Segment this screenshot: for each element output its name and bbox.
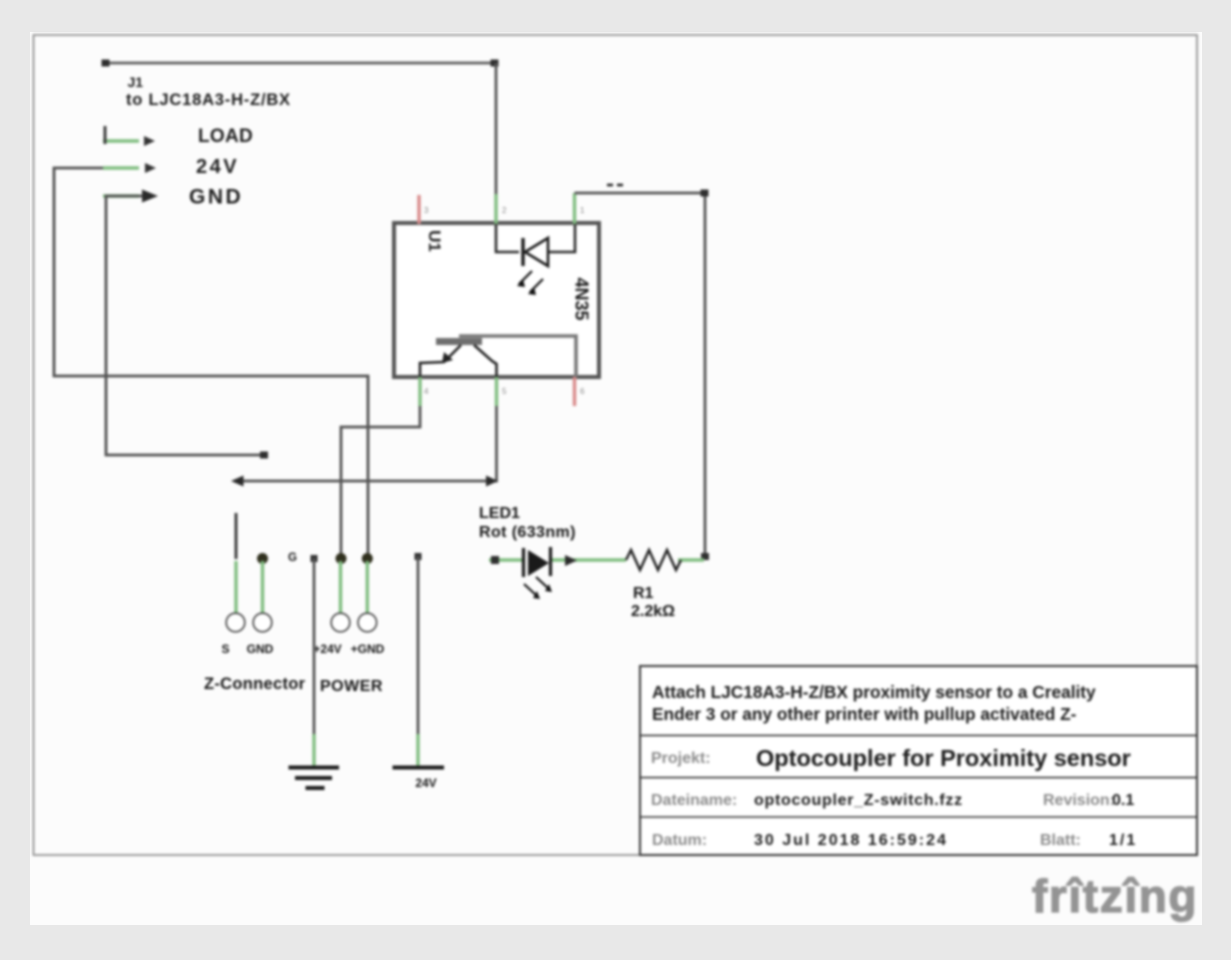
svg-text:R1: R1 bbox=[633, 585, 654, 602]
phototransistor base bar bbox=[436, 338, 482, 345]
collector leg bbox=[474, 345, 497, 377]
wire from opto emitter to POWER connector bbox=[341, 406, 420, 559]
svg-text:4N35: 4N35 bbox=[572, 277, 592, 320]
svg-text:+GND: +GND bbox=[351, 642, 385, 656]
internal LED triangle bbox=[525, 238, 548, 266]
wire stub on J1 LOAD pin bbox=[104, 126, 107, 144]
wire top bus bbox=[102, 60, 499, 67]
zigzag body bbox=[626, 550, 681, 570]
svg-text:POWER: POWER bbox=[320, 678, 383, 695]
connector J1 pin 3 GND bbox=[103, 186, 243, 209]
svg-text:LED1: LED1 bbox=[479, 505, 520, 522]
left lead bbox=[586, 558, 626, 561]
socket circle pin S bbox=[226, 613, 245, 632]
wire to 24V supply symbol bbox=[415, 553, 422, 744]
junction on Z connector pin 2 bbox=[257, 553, 268, 564]
pin numbers bbox=[424, 206, 585, 396]
svg-text:J1: J1 bbox=[128, 74, 144, 90]
pin 1 top-right (green) bbox=[573, 193, 576, 224]
pin 4 bottom-left (green) bbox=[418, 377, 421, 406]
base wire to pin 6 bbox=[459, 336, 576, 377]
pin S lead bbox=[234, 561, 237, 613]
net label dashes bbox=[607, 184, 623, 187]
svg-text:LOAD: LOAD bbox=[198, 126, 253, 147]
svg-text:U1: U1 bbox=[425, 230, 444, 252]
svg-text:1/1: 1/1 bbox=[1109, 832, 1137, 849]
svg-text:Blatt:: Blatt: bbox=[1040, 832, 1081, 849]
svg-text:Dateiname:: Dateiname: bbox=[651, 792, 737, 809]
pin 2 top-middle (green) bbox=[494, 194, 497, 224]
svg-text:3: 3 bbox=[424, 206, 429, 215]
wire GND net from J1 bbox=[106, 190, 268, 459]
emitter leg with arrow bbox=[420, 345, 461, 377]
wire stub above Z connector pin 1 bbox=[235, 513, 238, 559]
svg-text:G: G bbox=[288, 552, 297, 564]
internal LED cathode bar bbox=[521, 238, 524, 266]
socket circle pin +24V bbox=[331, 613, 350, 632]
svg-text:Rot (633nm): Rot (633nm) bbox=[479, 524, 576, 541]
ground bbox=[289, 734, 340, 788]
wire end cap bbox=[491, 556, 499, 564]
LED LED1 bbox=[479, 505, 586, 599]
svg-text:optocoupler_Z-switch.fzz: optocoupler_Z-switch.fzz bbox=[754, 792, 963, 809]
junction on POWER pin 1 bbox=[336, 553, 347, 564]
svg-text:6: 6 bbox=[580, 387, 585, 396]
svg-text:Projekt:: Projekt: bbox=[651, 750, 711, 767]
svg-text:2: 2 bbox=[502, 206, 507, 215]
diode symbol bbox=[522, 548, 525, 577]
junction on POWER pin 2 bbox=[362, 553, 373, 564]
svg-text:Ender 3 or any other printer w: Ender 3 or any other printer with pullup… bbox=[652, 704, 1077, 724]
socket circle pin GND bbox=[253, 613, 272, 632]
connector J1 pin 1 LOAD bbox=[103, 126, 253, 147]
svg-text:5: 5 bbox=[502, 387, 507, 396]
pin 3 top-left (unconnected, red) bbox=[417, 195, 420, 224]
emission arrows bbox=[524, 577, 549, 596]
right lead bbox=[678, 558, 704, 561]
wire end arrow bbox=[565, 555, 577, 566]
svg-text:to LJC18A3-H-Z/BX: to LJC18A3-H-Z/BX bbox=[126, 91, 291, 109]
pin 6 bottom-right (unconnected, red) bbox=[573, 377, 576, 406]
connector J1 label bbox=[126, 74, 291, 109]
pin +24V lead bbox=[339, 561, 342, 613]
svg-text:S: S bbox=[221, 642, 229, 656]
svg-text:2.2kΩ: 2.2kΩ bbox=[631, 603, 675, 620]
wire from top bus to optocoupler pin 2 bbox=[495, 63, 498, 196]
wire 24V net from J1 to POWER connector bbox=[54, 168, 368, 559]
anode lead bbox=[489, 558, 522, 561]
svg-text:GND: GND bbox=[189, 186, 243, 209]
resistor R1 bbox=[586, 550, 704, 620]
svg-text:0.1: 0.1 bbox=[1112, 792, 1134, 809]
power supply 24V bbox=[393, 734, 445, 790]
body bbox=[394, 223, 599, 377]
optocoupler U1 4N35 bbox=[394, 193, 599, 406]
pin GND lead bbox=[261, 561, 264, 613]
svg-text:+24V: +24V bbox=[313, 642, 341, 656]
svg-text:Optocoupler for Proximity sens: Optocoupler for Proximity sensor bbox=[756, 745, 1131, 771]
svg-text:30 Jul 2018 16:59:24: 30 Jul 2018 16:59:24 bbox=[754, 832, 948, 849]
svg-text:GND: GND bbox=[247, 642, 274, 656]
svg-text:Datum:: Datum: bbox=[652, 832, 707, 849]
svg-text:1: 1 bbox=[580, 206, 585, 215]
title block bbox=[640, 666, 1197, 855]
internal LED emission arrows bbox=[519, 271, 543, 292]
svg-text:Z-Connector: Z-Connector bbox=[204, 675, 306, 693]
svg-text:frîtzîng: frîtzîng bbox=[1032, 870, 1198, 922]
wire from opto collector to Z connector bbox=[231, 406, 498, 487]
wire to ground symbol bbox=[311, 555, 318, 744]
svg-text:24V: 24V bbox=[415, 776, 436, 790]
svg-text:4: 4 bbox=[424, 387, 429, 396]
svg-text:Attach LJC18A3-H-Z/BX proximit: Attach LJC18A3-H-Z/BX proximity sensor t… bbox=[652, 682, 1096, 702]
connector J1 pin 2 24V bbox=[103, 156, 239, 178]
internal LED wiring bbox=[496, 224, 519, 252]
svg-text:24V: 24V bbox=[196, 156, 239, 178]
connector POWER bbox=[313, 561, 384, 695]
connector Z-Connector bbox=[204, 561, 306, 693]
socket circle pin +GND bbox=[358, 613, 377, 632]
wire from opto pin1 to resistor (right loop) bbox=[575, 190, 710, 561]
svg-text:Revision:: Revision: bbox=[1043, 792, 1115, 809]
cathode lead bbox=[552, 558, 586, 561]
pin +GND lead bbox=[366, 561, 369, 613]
pin 5 bottom-middle (green) bbox=[495, 377, 498, 406]
